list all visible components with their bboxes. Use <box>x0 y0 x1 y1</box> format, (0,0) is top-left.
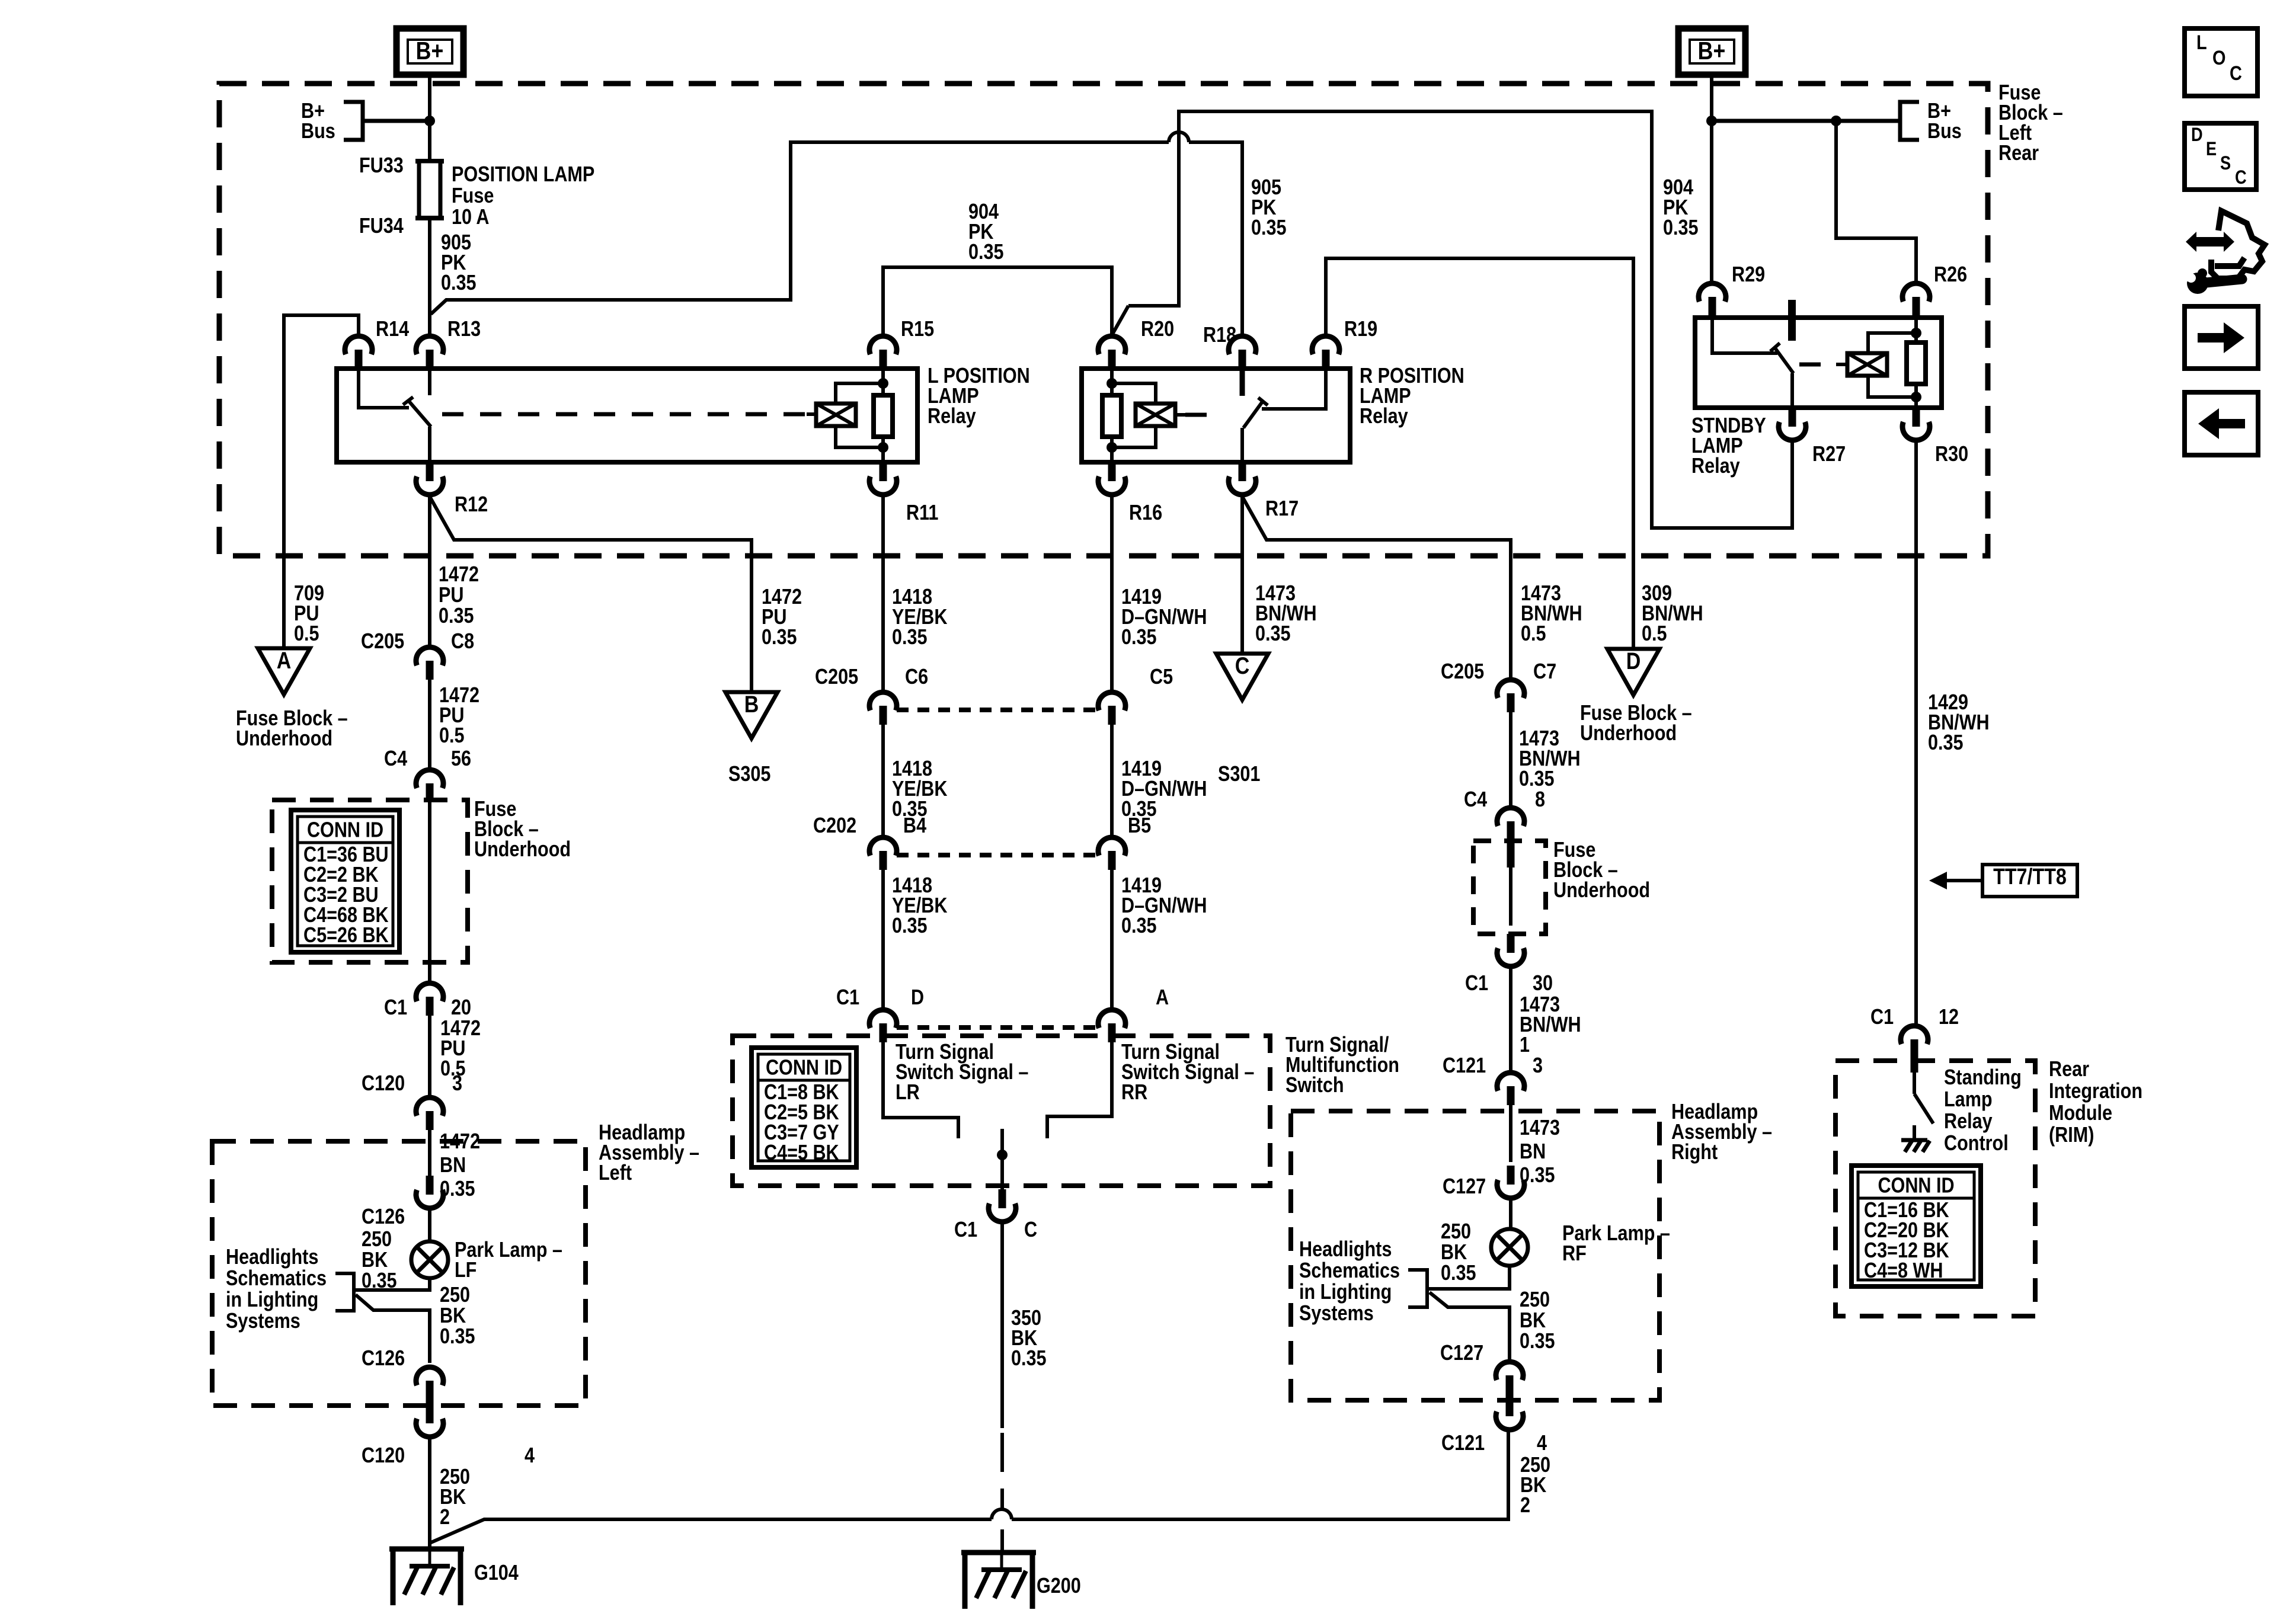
svg-text:Relay: Relay <box>1944 1110 1993 1134</box>
ground G104 <box>389 1547 464 1552</box>
svg-text:R11: R11 <box>906 501 938 525</box>
svg-text:BK: BK <box>362 1249 388 1272</box>
connector C1 pin 30 <box>1507 934 1515 953</box>
L relay switch blade <box>408 401 431 427</box>
wire G104 to C121 ground run <box>430 1519 992 1543</box>
wire B+2 bus to bracket <box>1712 119 1900 123</box>
wire 1473 BN/WH R17 to C205 C7 <box>1242 497 1511 680</box>
RIM internal ground <box>1913 1125 1916 1140</box>
svg-text:0.35: 0.35 <box>1519 767 1555 791</box>
connector R18 <box>1229 336 1256 354</box>
junction dots L coil <box>878 378 888 389</box>
svg-text:C127: C127 <box>1440 1342 1483 1365</box>
R relay fixed contact stub from R18 <box>1240 369 1245 396</box>
svg-text:(RIM): (RIM) <box>2049 1124 2094 1147</box>
label 1472 BN 0.35 <box>437 1131 486 1152</box>
svg-text:Relay: Relay <box>928 405 976 428</box>
svg-text:250: 250 <box>1520 1288 1550 1312</box>
svg-text:S301: S301 <box>1218 763 1260 786</box>
svg-text:Headlights: Headlights <box>1299 1238 1392 1262</box>
TT7/TT8 reference box <box>1982 865 2077 897</box>
standby relay resistor <box>1914 318 1918 343</box>
svg-text:0.35: 0.35 <box>1121 914 1157 938</box>
connector C1 pin D <box>869 1010 897 1028</box>
wire B5 to C1 A <box>1110 870 1114 1010</box>
connector R20 <box>1098 336 1125 354</box>
diagonal into R20 <box>1113 306 1128 333</box>
svg-text:D: D <box>2191 124 2203 146</box>
svg-text:L: L <box>2196 31 2207 54</box>
fuse FU33/FU34 POSITION LAMP 10A <box>415 159 444 164</box>
connector pair C127/C121 at right headlamp boundary <box>1496 1362 1523 1380</box>
relay box R POSITION LAMP <box>1082 369 1350 462</box>
svg-text:FU33: FU33 <box>359 154 404 178</box>
svg-text:Module: Module <box>2049 1102 2112 1125</box>
svg-text:Bus: Bus <box>1927 120 1962 143</box>
svg-text:20: 20 <box>451 996 471 1020</box>
L relay coil actuation dashed link <box>442 412 807 417</box>
svg-text:LR: LR <box>896 1081 920 1105</box>
wire R17 to S301 branch <box>1240 495 1244 654</box>
svg-text:R12: R12 <box>455 493 488 517</box>
svg-text:0.5: 0.5 <box>439 724 465 748</box>
svg-text:1473: 1473 <box>1520 1116 1560 1140</box>
R relay pole to R17 <box>1240 428 1244 462</box>
svg-text:C4=5 BK: C4=5 BK <box>764 1141 839 1165</box>
svg-text:CONN ID: CONN ID <box>766 1056 842 1080</box>
svg-text:Relay: Relay <box>1691 454 1740 478</box>
svg-text:0.35: 0.35 <box>1441 1262 1476 1285</box>
connector C126 (top) <box>426 1176 434 1195</box>
conn id table (turn signal switch) <box>752 1048 856 1167</box>
wire C7 to C4-8 <box>1509 712 1512 808</box>
svg-text:R27: R27 <box>1812 443 1846 466</box>
B+ Bus bracket (right) <box>1900 102 1919 140</box>
junction dots R coil <box>1107 378 1117 389</box>
R relay coil bracket <box>1112 383 1156 404</box>
connector R12 <box>426 462 434 481</box>
svg-text:C126: C126 <box>362 1347 405 1371</box>
power symbol B+ (right) <box>1678 28 1745 75</box>
standby relay pole path from R29 <box>1712 318 1777 353</box>
connector C205 pin C5 <box>1098 692 1125 710</box>
svg-text:R15: R15 <box>901 318 934 341</box>
standby relay coil dashed link <box>1799 363 1836 367</box>
svg-text:Left: Left <box>599 1161 632 1185</box>
connector pair C126/C120 at headlamp boundary <box>416 1367 443 1385</box>
svg-text:B+: B+ <box>416 37 444 65</box>
svg-text:250: 250 <box>440 1283 470 1307</box>
svg-text:R30: R30 <box>1935 443 1968 466</box>
junction dot switch pole <box>997 1150 1008 1160</box>
svg-text:E: E <box>2206 139 2217 160</box>
wire C6 to C202 B4 <box>881 725 885 837</box>
svg-text:R14: R14 <box>376 318 409 341</box>
svg-text:TT7/TT8: TT7/TT8 <box>1993 865 2067 889</box>
svg-text:12: 12 <box>1939 1006 1959 1029</box>
svg-text:C4=8 WH: C4=8 WH <box>1864 1259 1943 1283</box>
svg-text:0.35: 0.35 <box>1663 216 1699 240</box>
svg-text:RF: RF <box>1562 1242 1587 1266</box>
svg-text:R19: R19 <box>1344 318 1377 341</box>
connector C202 pin B4 <box>869 837 897 856</box>
R relay coil <box>1136 404 1175 426</box>
svg-text:C5: C5 <box>1150 665 1173 689</box>
fuse block (underhood) dashed boundary box <box>219 84 1988 556</box>
connector C120 pin 3 <box>416 1097 443 1116</box>
svg-text:POSITION LAMP: POSITION LAMP <box>452 163 594 187</box>
svg-text:BK: BK <box>1441 1241 1467 1265</box>
svg-text:R16: R16 <box>1129 501 1162 525</box>
svg-text:G200: G200 <box>1037 1574 1081 1598</box>
svg-text:C7: C7 <box>1533 660 1556 684</box>
wire hop at G200 crossing <box>992 1509 1012 1519</box>
icon box arrow right <box>2185 306 2258 369</box>
connector C205 pin C8 <box>416 647 443 665</box>
L relay resistor <box>881 369 885 395</box>
connector R26 <box>1902 283 1930 302</box>
svg-text:C121: C121 <box>1441 1432 1485 1455</box>
relay box L POSITION LAMP <box>337 369 917 462</box>
turn signal switch contact RR <box>1047 1042 1112 1138</box>
icon box DESC <box>2185 123 2256 190</box>
svg-text:Systems: Systems <box>226 1310 300 1333</box>
connector C205 pin C6 <box>869 692 897 710</box>
svg-text:C6: C6 <box>905 665 928 689</box>
svg-text:0.35: 0.35 <box>1255 622 1291 646</box>
wire 350 BK to G200 <box>1000 1222 1004 1428</box>
wire to park lamp LF <box>428 1208 431 1241</box>
svg-text:Headlights: Headlights <box>226 1246 318 1269</box>
triangle A fuse block underhood <box>258 648 310 694</box>
connector C4 pin 56 <box>416 770 443 788</box>
svg-text:in Lighting: in Lighting <box>226 1288 318 1312</box>
junction dot B+ bus <box>424 116 435 126</box>
connector C4 pin 8 <box>1497 808 1524 826</box>
svg-text:Rear: Rear <box>1998 142 2039 165</box>
L relay switch pole path <box>359 369 409 408</box>
svg-text:C4: C4 <box>1464 788 1487 812</box>
svg-text:R18: R18 <box>1203 324 1236 347</box>
wire 1418 YE/BK R11 to C205 C6 <box>881 495 885 692</box>
svg-text:Lamp: Lamp <box>1944 1088 1993 1112</box>
junction dots standby coil <box>1911 328 1921 338</box>
svg-text:0.5: 0.5 <box>1642 622 1667 646</box>
turn signal multifunction switch dashed box <box>733 1036 1270 1186</box>
svg-text:B: B <box>744 690 759 717</box>
connector C202 pin B5 <box>1098 837 1125 856</box>
connector R30 <box>1913 408 1920 427</box>
svg-text:4: 4 <box>525 1444 535 1468</box>
connector R29 <box>1699 283 1726 302</box>
L relay coil <box>816 404 856 426</box>
svg-text:C120: C120 <box>362 1072 405 1096</box>
svg-text:Systems: Systems <box>1299 1302 1374 1326</box>
park lamp LF bulb <box>411 1241 448 1278</box>
connector boundary dotted line C202 <box>897 853 1098 857</box>
wire through fuse block (thick ends) <box>1507 840 1515 868</box>
svg-text:FU34: FU34 <box>359 215 404 238</box>
wire park lamp to headlights schematic bracket <box>354 1278 430 1290</box>
svg-text:CONN ID: CONN ID <box>307 818 383 842</box>
wire B+ to fuse FU33 <box>428 75 431 161</box>
svg-text:0.5: 0.5 <box>294 622 319 646</box>
svg-text:C: C <box>1024 1218 1037 1242</box>
svg-text:O: O <box>2212 46 2225 69</box>
svg-text:C205: C205 <box>361 630 404 654</box>
fuse block underhood small dashed box (right) <box>1473 841 1546 934</box>
standby relay pole to R27 <box>1790 373 1794 408</box>
relay box STNDBY LAMP <box>1695 318 1942 408</box>
power symbol B+ (left) <box>396 28 463 75</box>
wire into right headlamp <box>1509 1105 1512 1162</box>
svg-text:Underhood: Underhood <box>474 838 571 862</box>
svg-text:0.35: 0.35 <box>892 914 928 938</box>
L relay pole to R12 <box>428 427 431 462</box>
wire return from bracket <box>356 1295 430 1363</box>
svg-text:0.35: 0.35 <box>1011 1347 1047 1371</box>
svg-text:0.35: 0.35 <box>1251 216 1287 240</box>
svg-text:B5: B5 <box>1128 814 1151 838</box>
standby relay middle pin stub <box>1788 300 1796 341</box>
turn signal switch contact LR <box>883 1042 958 1138</box>
wire 1472 PU R12 down to C205 C8 <box>428 495 431 647</box>
icon car silhouette with two-way arrow and wrench <box>2211 211 2265 279</box>
headlamp assembly left dashed box <box>212 1141 586 1406</box>
svg-text:C126: C126 <box>362 1205 405 1229</box>
svg-text:in Lighting: in Lighting <box>1299 1281 1392 1304</box>
svg-text:A: A <box>1156 986 1169 1010</box>
svg-text:LF: LF <box>455 1259 477 1282</box>
arrow TT7/TT8 to wire <box>1946 879 1982 882</box>
wire to C4-56 <box>428 680 431 770</box>
wire R14 feed from 709 PU <box>284 315 359 648</box>
svg-text:Bus: Bus <box>301 120 335 143</box>
junction dot R26 tap <box>1831 116 1841 126</box>
svg-text:10 A: 10 A <box>452 206 489 229</box>
svg-text:B4: B4 <box>903 814 926 838</box>
connector R17 <box>1239 462 1246 481</box>
connector C1 pin A <box>1098 1010 1125 1028</box>
RIM standing lamp relay control switch <box>1913 1073 1916 1094</box>
connector C127 (top) <box>1507 1166 1515 1185</box>
svg-text:C205: C205 <box>1441 660 1484 684</box>
svg-text:Rear: Rear <box>2049 1058 2089 1081</box>
svg-text:C205: C205 <box>815 665 858 689</box>
svg-text:56: 56 <box>451 747 471 771</box>
wire B4 to C1 D <box>881 870 885 1010</box>
wire 905 PK branch R13 to R18 <box>431 142 1169 314</box>
junction dot B+2 bus <box>1706 116 1717 126</box>
wire 309 BN/WH R19 to fuse block D <box>1326 258 1633 649</box>
L relay fixed contact stub from R13 <box>428 369 431 395</box>
svg-text:R13: R13 <box>447 318 481 341</box>
svg-text:C127: C127 <box>1443 1175 1486 1199</box>
svg-text:C: C <box>2235 167 2247 188</box>
svg-text:0.35: 0.35 <box>762 626 797 649</box>
svg-text:Underhood: Underhood <box>1553 879 1650 902</box>
wire 905 PK from fuse to R13 <box>428 218 431 336</box>
svg-text:Underhood: Underhood <box>1580 722 1677 745</box>
standby relay switch blade <box>1774 347 1793 373</box>
svg-text:1: 1 <box>1520 1033 1530 1057</box>
svg-text:A: A <box>277 646 292 673</box>
connector C1 pin C <box>999 1189 1006 1208</box>
svg-text:S: S <box>2220 153 2231 174</box>
wire C5 to C202 B5 <box>1110 725 1114 837</box>
svg-text:Relay: Relay <box>1360 405 1408 428</box>
icon box LOC <box>2185 28 2257 96</box>
connector boundary dotted line C1 <box>897 1025 1098 1030</box>
headlights schematics bracket (left) <box>335 1273 354 1311</box>
triangle C splice S301 <box>1216 654 1268 700</box>
wire R27 to R20 link (via left of standby relay) <box>1128 111 1792 528</box>
wire park lamp RF to bracket <box>1427 1266 1510 1289</box>
svg-text:D: D <box>911 986 924 1010</box>
wire B+ Bus tap <box>363 119 430 123</box>
svg-text:Switch: Switch <box>1285 1074 1344 1097</box>
connector R16 <box>1108 462 1116 481</box>
triangle D fuse block underhood <box>1607 649 1659 695</box>
wire through fuse block underhood box <box>428 802 431 983</box>
svg-text:C8: C8 <box>451 630 474 654</box>
connector R27 <box>1789 408 1796 427</box>
svg-text:0.35: 0.35 <box>441 271 477 295</box>
connector R13 <box>416 336 443 354</box>
svg-text:C120: C120 <box>362 1444 405 1468</box>
svg-text:0.35: 0.35 <box>440 1325 475 1349</box>
svg-text:0.35: 0.35 <box>1121 626 1157 649</box>
wire 904 PK B+ to R29 <box>1710 75 1713 283</box>
conn id table (RIM) <box>1851 1166 1981 1286</box>
svg-text:0.5: 0.5 <box>1521 622 1546 646</box>
svg-text:D: D <box>1626 647 1641 674</box>
svg-text:C5=26 BK: C5=26 BK <box>303 924 389 948</box>
wire 904 PK R15 to R20 <box>883 267 1112 336</box>
svg-text:C1: C1 <box>836 986 859 1010</box>
svg-text:BN: BN <box>1520 1140 1546 1164</box>
svg-text:BK: BK <box>1520 1309 1546 1333</box>
svg-text:0.35: 0.35 <box>968 241 1004 264</box>
wire into headlamp assembly left <box>428 1130 431 1176</box>
standby relay coil <box>1847 353 1887 376</box>
svg-text:Schematics: Schematics <box>1299 1259 1400 1283</box>
connector R19 <box>1312 336 1339 354</box>
svg-text:R26: R26 <box>1934 263 1967 287</box>
svg-text:C4: C4 <box>384 747 407 771</box>
wire hop at crossing x=1989 y=240 <box>1169 132 1189 142</box>
connector boundary dotted line C205 <box>897 708 1098 712</box>
svg-text:Schematics: Schematics <box>226 1267 327 1291</box>
R relay rail from R19 <box>1262 369 1326 409</box>
svg-text:30: 30 <box>1533 972 1553 996</box>
svg-text:2: 2 <box>440 1506 450 1529</box>
svg-text:PU: PU <box>439 584 463 607</box>
standby relay coil bracket <box>1868 333 1916 353</box>
connector C1 pin 20 <box>416 983 443 1001</box>
svg-text:250: 250 <box>362 1228 392 1251</box>
wire to C120 <box>428 1016 431 1097</box>
wire to park lamp RF <box>1509 1198 1512 1228</box>
svg-text:3: 3 <box>452 1072 462 1096</box>
svg-text:Right: Right <box>1671 1141 1718 1164</box>
svg-text:C: C <box>2230 62 2242 85</box>
R relay resistor branch <box>1110 369 1114 395</box>
wire return from bracket (right) <box>1430 1292 1510 1363</box>
svg-text:BK: BK <box>440 1304 466 1328</box>
connector R11 <box>880 462 887 481</box>
svg-text:C121: C121 <box>1443 1054 1486 1078</box>
connector C1 pin 12 <box>1901 1026 1928 1044</box>
svg-text:B+: B+ <box>1698 37 1726 65</box>
svg-text:C: C <box>1235 652 1250 678</box>
R relay coil actuation dashed link <box>1176 413 1185 417</box>
wire to R26 <box>1836 121 1916 283</box>
wire C1-30 to C121-3 <box>1509 966 1512 1073</box>
park lamp RF bulb <box>1491 1229 1528 1266</box>
svg-text:BN: BN <box>440 1154 466 1177</box>
triangle B splice S305 <box>725 692 778 738</box>
wire R12 to S305 branch <box>430 497 752 692</box>
R relay switch blade <box>1243 402 1262 428</box>
svg-text:C1: C1 <box>384 996 407 1020</box>
svg-text:3: 3 <box>1533 1054 1543 1078</box>
svg-text:0.35: 0.35 <box>439 604 474 628</box>
svg-text:Fuse: Fuse <box>452 184 494 208</box>
svg-text:250: 250 <box>1441 1220 1471 1244</box>
svg-text:C202: C202 <box>813 814 856 838</box>
fuse block underhood dashed box (conn id) <box>272 800 468 962</box>
headlamp assembly right dashed box <box>1291 1111 1659 1400</box>
svg-text:R29: R29 <box>1732 263 1765 287</box>
B+ Bus bracket (left) <box>344 102 363 140</box>
wire to ground G104 <box>428 1437 431 1549</box>
svg-text:G104: G104 <box>474 1561 519 1585</box>
ground G200 <box>961 1550 1036 1555</box>
svg-text:S305: S305 <box>728 763 770 786</box>
svg-text:C1: C1 <box>1870 1006 1894 1029</box>
svg-text:R17: R17 <box>1265 497 1299 521</box>
svg-text:0.35: 0.35 <box>1520 1330 1555 1353</box>
svg-text:R20: R20 <box>1141 318 1174 341</box>
svg-text:Control: Control <box>1944 1132 2009 1156</box>
svg-text:0.35: 0.35 <box>892 626 928 649</box>
headlights schematics bracket (right) <box>1408 1270 1427 1307</box>
L relay coil bracket <box>836 383 883 404</box>
connector R15 <box>869 336 897 354</box>
svg-text:Standing: Standing <box>1944 1066 2022 1090</box>
wire 1429 BN/WH R30 to RIM C1-12 <box>1914 440 1918 1026</box>
svg-text:Underhood: Underhood <box>236 727 332 751</box>
icon box arrow left <box>2185 392 2258 455</box>
svg-text:Integration: Integration <box>2049 1080 2142 1103</box>
svg-text:CONN ID: CONN ID <box>1878 1174 1954 1198</box>
svg-text:1472: 1472 <box>439 563 479 587</box>
svg-text:C1: C1 <box>1465 972 1488 996</box>
wire 1419 D-GN/WH R16 to C205 C5 <box>1110 495 1114 692</box>
svg-text:0.35: 0.35 <box>1928 731 1964 755</box>
rear integration module dashed box <box>1835 1061 2035 1316</box>
turn signal switch common pole <box>1000 1129 1004 1189</box>
svg-text:C1: C1 <box>954 1218 977 1242</box>
svg-text:2: 2 <box>1520 1494 1530 1518</box>
connector C121 pin 3 <box>1497 1073 1524 1091</box>
conn id table (fuse block underhood) <box>291 810 399 952</box>
svg-text:RR: RR <box>1121 1081 1147 1105</box>
connector R14 <box>345 336 372 354</box>
connector C205 pin C7 <box>1497 680 1524 698</box>
svg-text:8: 8 <box>1535 788 1545 812</box>
